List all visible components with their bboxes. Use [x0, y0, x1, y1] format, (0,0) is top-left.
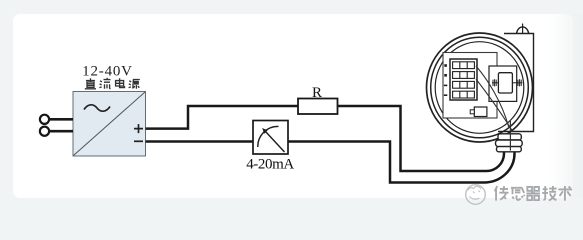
white diagram area [13, 14, 573, 198]
cable gland band 3 [497, 147, 522, 152]
jumper tab [470, 110, 474, 114]
meter M1 scale arc [258, 126, 279, 147]
watermark logo [466, 185, 486, 205]
terminal circle T1 [40, 115, 49, 124]
char 术 [558, 186, 572, 201]
transmitter vent slot [522, 24, 524, 34]
gland center wire [509, 121, 511, 151]
PS1 diagonal divider [74, 92, 145, 155]
TB row 1 [453, 62, 475, 69]
cable gland band 2 [496, 140, 523, 147]
transmitter inner panel [443, 53, 497, 119]
svg-text:12-40V: 12-40V [82, 64, 133, 80]
wire resistor R to transmitter (down and bottom inner run) [337, 106, 504, 171]
svg-text:4-20mA: 4-20mA [246, 156, 294, 172]
char 源 [129, 80, 140, 89]
terminal circle T2 [40, 127, 49, 136]
meter M1 needle [265, 131, 285, 152]
meter M1 box [253, 121, 288, 155]
cable gland band 1 [498, 134, 521, 140]
TB row 4 [453, 91, 475, 98]
wire PS1 plus to resistor R (top run) [146, 106, 299, 129]
power supply PS1 box [73, 92, 146, 157]
char 传 [495, 186, 509, 201]
watermark text 传感器技术 drawn as strokes [495, 186, 572, 201]
char 器 [526, 187, 539, 200]
meter M1 needle arrowhead [262, 128, 268, 134]
PS1 minus sign [134, 140, 143, 142]
transmitter housing body (rect behind cover) [498, 34, 534, 132]
jumper connector [474, 107, 487, 117]
component left lead [492, 79, 498, 86]
component right lead [512, 79, 522, 86]
internal wire W2 [476, 79, 513, 132]
transmitter cover outer ring [427, 33, 533, 142]
PS1 plus sign [134, 124, 143, 133]
char 感 [511, 188, 525, 200]
transmitter cover inner ring [435, 42, 524, 134]
internal wire W1 [476, 66, 509, 128]
wire T1 to PS1 [49, 118, 73, 121]
wire meter M1 to transmitter (bottom outer run) [288, 142, 515, 183]
label 直流电源 (DC power) drawn as strokes [85, 78, 140, 89]
transmitter vent dome [517, 27, 529, 34]
svg-text:R: R [312, 85, 322, 101]
char 技 [542, 186, 556, 201]
resistor R [298, 99, 338, 115]
TB row 3 [453, 81, 475, 88]
PS1 AC tilde symbol [84, 105, 110, 111]
wire T2 to PS1 [49, 130, 73, 133]
TB row 2 [453, 72, 475, 79]
electronics module box [489, 66, 517, 101]
wire PS1 minus to meter M1 [146, 140, 254, 143]
terminal block TB [450, 59, 477, 100]
TB pin markers [444, 64, 447, 96]
char 电 [116, 78, 125, 87]
char 直 [85, 78, 96, 89]
transmitter cover middle ring [431, 37, 529, 138]
module component body [498, 73, 512, 93]
char 流 [99, 78, 110, 89]
